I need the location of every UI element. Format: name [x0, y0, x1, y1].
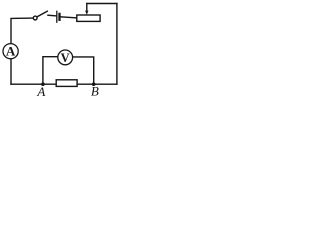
wire: top-left corner and left vertical: [11, 18, 33, 84]
voltmeter V circle: [58, 50, 73, 65]
rheostat wiper arrowhead: [85, 11, 88, 15]
switch S (open) : lever: [37, 11, 47, 17]
svg-text:A: A: [36, 84, 45, 99]
node B junction dot: [92, 82, 96, 86]
ammeter A circle: [3, 44, 18, 59]
wire: battery to rheostat: [61, 17, 77, 18]
battery cell: short thick plate (-): [58, 14, 60, 20]
wire: top horizontal from wiper to top-right corner: [87, 3, 117, 5]
wire: voltmeter branch left (node A up and right): [43, 57, 58, 84]
svg-text:A: A: [6, 43, 16, 58]
svg-text:B: B: [91, 84, 99, 99]
wire: switch contact to battery: [48, 14, 56, 17]
switch S : pivot circle: [33, 16, 37, 20]
resistor R between A and B: [56, 80, 77, 87]
wire: bottom horizontal: [11, 83, 117, 85]
battery cell: long thin plate (+): [56, 11, 58, 22]
node A junction dot: [41, 82, 45, 86]
rheostat wiper arrow stem: [86, 4, 88, 11]
svg-text:V: V: [61, 51, 70, 65]
wire: voltmeter branch right (down to node B): [73, 57, 94, 84]
rheostat body: [77, 15, 100, 21]
wire: right vertical: [116, 4, 118, 85]
